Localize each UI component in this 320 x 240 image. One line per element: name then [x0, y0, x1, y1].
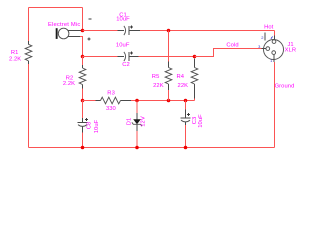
svg-text:22K: 22K	[153, 83, 164, 89]
node hot / R5 junction	[167, 29, 171, 33]
diode D1 zener 12V	[126, 113, 146, 131]
wire cold line right	[139, 56, 195, 58]
node D1 ground	[135, 146, 139, 150]
node C3 ground	[184, 146, 188, 150]
wire mid rail right segment	[131, 100, 195, 102]
svg-text:C8: C8	[87, 122, 93, 130]
svg-text:R1: R1	[11, 50, 19, 56]
wire cold jog to XLR pin3	[195, 49, 262, 57]
wire R2 bottom	[82, 88, 84, 100]
node C8 ground	[81, 146, 85, 150]
wire R5 bottom	[168, 90, 170, 101]
wire mid rail left segment	[83, 100, 96, 102]
svg-text:R5: R5	[152, 74, 160, 80]
resistor R1	[9, 41, 32, 64]
svg-text:10uF: 10uF	[198, 114, 204, 128]
wire R2 top	[82, 57, 84, 65]
wire ground drop from pin1	[274, 62, 276, 148]
svg-text:R3: R3	[107, 90, 115, 96]
wire C8 bottom	[82, 132, 84, 147]
node cold / R4 junction	[193, 55, 197, 59]
wire C3 bottom	[185, 125, 187, 148]
svg-text:330: 330	[106, 106, 116, 112]
pin 3	[266, 47, 270, 51]
svg-text:2.2K: 2.2K	[9, 56, 21, 62]
svg-text:XLR: XLR	[285, 48, 297, 54]
wire D1 bottom	[136, 131, 138, 148]
pin 2	[272, 40, 276, 44]
resistor R3	[96, 90, 132, 112]
svg-text:Electret Mic: Electret Mic	[48, 22, 80, 28]
wire R4 bottom stub	[194, 99, 196, 101]
node D1 top	[135, 99, 139, 103]
svg-text:10uF: 10uF	[94, 119, 100, 133]
svg-text:2.2K: 2.2K	[63, 81, 75, 87]
wire left supply lower	[28, 64, 30, 148]
resistor R5	[152, 62, 172, 91]
wire D1 drop	[136, 101, 138, 114]
capacitor C1	[116, 12, 140, 35]
mic plus mark	[88, 37, 91, 40]
wire mic top drop	[82, 8, 84, 31]
wire bottom ground rail	[29, 147, 275, 149]
pin 2 tick	[264, 33, 266, 41]
resistor R4	[177, 58, 198, 98]
svg-text:12V: 12V	[141, 116, 147, 127]
wire C8 drop	[82, 101, 84, 119]
svg-text:22K: 22K	[178, 83, 189, 89]
wire cold line left	[83, 56, 118, 58]
svg-text:10uF: 10uF	[116, 42, 130, 48]
svg-text:10uF: 10uF	[116, 16, 130, 22]
capacitor C3	[181, 109, 204, 127]
svg-text:Cold: Cold	[226, 43, 238, 49]
svg-text:Ground: Ground	[275, 84, 295, 90]
wire hot line right	[140, 30, 275, 32]
svg-text:Hot: Hot	[264, 24, 274, 30]
resistor R2	[63, 65, 86, 88]
wire mic plus stub	[80, 37, 83, 57]
svg-text:D1: D1	[126, 118, 132, 126]
node R5 bottom	[167, 99, 171, 103]
svg-text:R4: R4	[177, 74, 185, 80]
pin 1	[272, 51, 276, 55]
node mic out minus	[81, 29, 85, 33]
node C3 top	[184, 99, 188, 103]
wire R5 drop from hot line	[168, 31, 170, 62]
capacitor C2	[116, 42, 139, 68]
wire hot drop to XLR pin2	[274, 31, 276, 36]
mic minus mark	[89, 18, 92, 20]
connector J1 XLR	[258, 33, 296, 63]
wire top-left rail	[29, 7, 83, 9]
wire left supply upper	[28, 8, 30, 42]
microphone MIC1 Electret Mic	[48, 22, 81, 39]
capacitor C8	[78, 118, 101, 133]
wire C3 drop	[185, 101, 187, 110]
node mic out plus	[81, 55, 85, 59]
node mid rail left	[81, 99, 85, 103]
wire hot line left	[83, 30, 118, 32]
svg-text:C2: C2	[122, 62, 130, 68]
